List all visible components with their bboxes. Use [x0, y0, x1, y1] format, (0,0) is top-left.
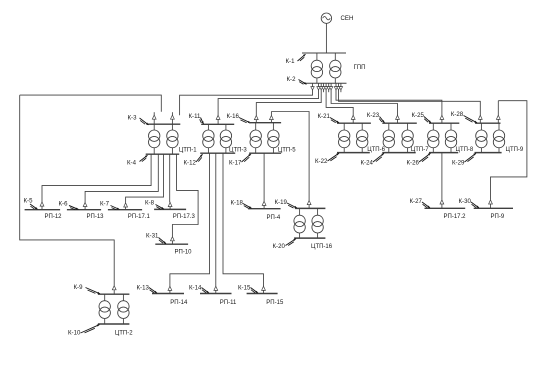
- GPP HV bus: [302, 52, 346, 54]
- svg-text:РП-9: РП-9: [491, 214, 505, 220]
- switch K-18 label: [231, 200, 252, 209]
- svg-text:ЦТП-8: ЦТП-8: [456, 147, 474, 153]
- label GPP: [354, 64, 366, 71]
- wire CTP-3 to RP-15: [223, 153, 265, 293]
- transformer T2 CTP-3: [220, 124, 231, 153]
- switch K-19 label: [275, 199, 298, 208]
- svg-text:РП-11: РП-11: [220, 300, 237, 306]
- switch K-25 label: [412, 112, 432, 123]
- wire CTP-8 to RP-17.2: [440, 153, 444, 209]
- switch K-15 label: [238, 284, 258, 293]
- GPP feeder stub 8: [334, 83, 337, 90]
- CTP-1 LV bus: [146, 153, 180, 155]
- label CEN: [341, 15, 354, 22]
- svg-text:К-6: К-6: [59, 201, 69, 208]
- transformer T1 CTP-2: [99, 294, 110, 324]
- svg-text:К-14: К-14: [189, 284, 202, 291]
- switch K-1 label: [286, 54, 306, 65]
- CTP-7 feeder triangle: [396, 115, 400, 123]
- GPP feeder stub 2: [317, 83, 320, 90]
- svg-text:РП-4: РП-4: [267, 215, 281, 221]
- svg-text:К-20: К-20: [273, 243, 286, 250]
- svg-text:К-3: К-3: [128, 115, 138, 122]
- switch K-21 label: [318, 113, 340, 123]
- svg-text:РП-17.3: РП-17.3: [173, 214, 196, 220]
- label CTP-2: [115, 330, 133, 336]
- CTP-3 feeder triangle: [216, 115, 220, 124]
- switch K-10 label: [68, 325, 100, 337]
- transformer T2 CTP-8: [445, 123, 456, 152]
- label RP-4: [267, 215, 281, 221]
- svg-text:К-10: К-10: [68, 329, 81, 336]
- svg-text:К-27: К-27: [410, 198, 423, 205]
- svg-text:К-31: К-31: [146, 232, 159, 239]
- CTP-5 left feeder triangle: [254, 115, 258, 122]
- power source (grid) symbol: [321, 13, 331, 23]
- transformer T1 GPP: [311, 53, 322, 83]
- RP-9 bus: [474, 207, 513, 209]
- transformer T1 CTP-8: [428, 123, 439, 152]
- svg-text:К-7: К-7: [100, 201, 110, 208]
- svg-text:ЦТП-7: ЦТП-7: [411, 147, 429, 153]
- wire CTP-1 to RP-17.3: [168, 154, 172, 209]
- RP-4 bus: [248, 208, 281, 210]
- CTP-1 HV bus: [147, 123, 180, 125]
- switch K-26 label: [407, 153, 431, 166]
- label RP-12: [45, 214, 63, 220]
- switch K-12 label: [184, 154, 203, 166]
- CTP-5 right feeder from bridge: [270, 112, 274, 123]
- switch K-4 label: [127, 155, 148, 166]
- label CTP-9: [506, 147, 524, 153]
- svg-text:К-16: К-16: [227, 113, 240, 120]
- svg-text:К-29: К-29: [452, 160, 465, 167]
- switch K-11 label: [189, 113, 204, 124]
- wire feeder 7 to CTP-7: [331, 90, 397, 115]
- svg-text:К-12: К-12: [184, 160, 197, 167]
- transformer T1 CTP-1: [149, 124, 160, 154]
- RP-12 bus: [25, 209, 61, 211]
- wire CTP-1 to RP-17.1: [124, 154, 164, 210]
- svg-text:РП-13: РП-13: [87, 214, 105, 220]
- CTP-2 feeder triangle: [112, 286, 116, 295]
- svg-text:ЦТП-2: ЦТП-2: [115, 330, 133, 336]
- wire CTP-1 to RP-10: [171, 154, 199, 244]
- CTP-8 LV bus: [429, 152, 458, 154]
- transformer T2 CTP-6: [357, 123, 368, 152]
- svg-text:К-8: К-8: [145, 200, 155, 207]
- RP-9 feeder triangle: [489, 200, 493, 209]
- wire feeder 3 to CTP-5 left: [256, 90, 321, 115]
- label RP-14: [170, 300, 188, 306]
- CTP-16 HV bus: [295, 207, 326, 209]
- label RP-17.1: [128, 214, 151, 220]
- switch K-27 label: [410, 198, 431, 208]
- switch K-9 label: [74, 284, 101, 294]
- transformer T1 CTP-9: [476, 123, 487, 152]
- svg-text:РП-17.2: РП-17.2: [444, 214, 467, 220]
- switch K-22 label: [315, 153, 339, 165]
- CTP-7 LV bus: [382, 152, 415, 154]
- wire left trunk to CTP-1 left drop: [20, 95, 162, 112]
- switch K-6 label: [59, 201, 79, 210]
- GPP feeder stub 10: [339, 83, 342, 90]
- GPP feeder stub 7: [329, 83, 332, 90]
- RP-17.3 bus: [154, 208, 186, 210]
- wire CTP-3 to RP-14: [168, 153, 210, 293]
- transformer T1 CTP-7: [383, 123, 394, 152]
- RP-15 bus: [247, 293, 278, 295]
- wire CTP-3 to RP-11: [214, 153, 218, 293]
- switch K-29 label: [452, 153, 476, 166]
- svg-text:К-19: К-19: [275, 199, 288, 206]
- label RP-17.2: [444, 214, 467, 220]
- CTP-5 LV bus: [249, 152, 281, 154]
- label RP-15: [266, 300, 284, 306]
- label CTP-1: [179, 148, 197, 154]
- switch K-17 label: [229, 154, 251, 167]
- svg-text:К-23: К-23: [367, 112, 380, 119]
- GPP feeder stub 9: [337, 83, 340, 90]
- switch K-14 label: [189, 284, 209, 293]
- CTP-16 LV bus: [294, 237, 325, 239]
- svg-text:СЕН: СЕН: [341, 15, 354, 22]
- GPP feeder stub 3: [320, 83, 323, 90]
- transformer T2 CTP-5: [268, 123, 279, 154]
- CTP-5 HV bus: [249, 122, 281, 124]
- svg-text:ЦТП-9: ЦТП-9: [506, 147, 524, 153]
- wire feeder 8 to CTP-8: [336, 90, 442, 115]
- CTP-16 feeder triangle: [307, 200, 311, 208]
- label RP-11: [220, 300, 237, 306]
- GPP feeder stub 5: [324, 83, 327, 90]
- label RP-10: [175, 250, 193, 256]
- CTP-9 HV bus: [475, 122, 500, 124]
- switch K-2 label: [287, 76, 307, 84]
- label CTP-7: [411, 147, 429, 153]
- CTP-9 LV bus: [475, 152, 502, 154]
- CTP-1 left feeder with disconnect triangle: [152, 112, 156, 124]
- svg-text:РП-17.1: РП-17.1: [128, 214, 151, 220]
- wire left rail to CTP-2: [20, 95, 115, 286]
- svg-text:РП-15: РП-15: [266, 300, 284, 306]
- svg-text:К-13: К-13: [137, 284, 150, 291]
- svg-text:ЦТП-1: ЦТП-1: [179, 148, 197, 154]
- svg-text:К-11: К-11: [189, 113, 202, 120]
- switch K-16 label: [227, 113, 251, 123]
- CTP-1 right feeder with disconnect triangle: [171, 112, 175, 124]
- CTP-3 LV bus: [200, 152, 235, 154]
- svg-text:К-28: К-28: [451, 111, 464, 118]
- svg-text:ЦТП-16: ЦТП-16: [311, 244, 333, 250]
- svg-text:К-24: К-24: [361, 160, 374, 167]
- RP-10 bus: [155, 243, 188, 245]
- RP-13 bus: [67, 209, 101, 211]
- CTP-3 HV bus: [201, 123, 234, 125]
- GPP feeder stub 6: [327, 83, 330, 90]
- CTP-6 feeder triangle: [351, 115, 355, 123]
- switch K-20 label: [273, 239, 297, 251]
- CTP-8 feeder triangle: [440, 115, 444, 123]
- switch K-28 label: [451, 111, 477, 123]
- wire CTP-5 to RP-4: [262, 153, 266, 209]
- CTP-6 LV bus: [337, 152, 370, 154]
- transformer T2 CTP-1: [167, 124, 178, 154]
- switch K-7 label: [100, 201, 120, 210]
- wire bridge CTP-5 to CTP-16: [271, 112, 309, 201]
- CTP-9 right feeder from bridge: [496, 101, 500, 124]
- switch K-13 label: [137, 284, 158, 293]
- svg-text:ГПП: ГПП: [354, 64, 366, 71]
- transformer T1 CTP-6: [339, 123, 350, 152]
- switch K-5 label: [24, 198, 38, 210]
- svg-text:К-25: К-25: [412, 112, 425, 119]
- svg-text:К-4: К-4: [127, 160, 137, 167]
- label CTP-16: [311, 244, 333, 250]
- svg-text:К-30: К-30: [459, 198, 472, 205]
- wire feeder 9 to CTP-9 left: [339, 90, 481, 115]
- transformer T2 CTP-2: [118, 294, 129, 324]
- svg-text:РП-10: РП-10: [175, 250, 193, 256]
- svg-text:К-18: К-18: [231, 200, 244, 207]
- transformer T2 CTP-16: [312, 208, 323, 238]
- wire feeder 5 to CTP-6: [326, 90, 353, 115]
- label RP-9: [491, 214, 505, 220]
- CTP-8 HV bus: [429, 122, 459, 124]
- transformer T2 CTP-7: [402, 123, 413, 152]
- svg-text:РП-12: РП-12: [45, 214, 63, 220]
- transformer T2 CTP-9: [493, 123, 504, 152]
- wire feeder 10 tail: [340, 90, 342, 92]
- switch K-8 label: [145, 200, 164, 210]
- switch K-23 label: [367, 112, 385, 123]
- switch K-31 label: [146, 232, 166, 243]
- label CTP-8: [456, 147, 474, 153]
- svg-text:К-15: К-15: [238, 284, 251, 291]
- RP-17.1 bus: [108, 209, 142, 211]
- wire CTP-1 to RP-12: [40, 154, 151, 210]
- wire feeder 4 tail: [323, 90, 325, 92]
- CTP-6 HV bus: [337, 122, 371, 124]
- RP-11 bus: [200, 293, 232, 295]
- transformer T1 CTP-5: [250, 123, 261, 154]
- transformer T2 GPP: [330, 53, 341, 83]
- wire source to GPP HV bus: [325, 23, 327, 53]
- svg-text:РП-14: РП-14: [170, 300, 188, 306]
- transformer T1 CTP-3: [203, 124, 214, 153]
- svg-text:К-2: К-2: [287, 76, 297, 83]
- wire CTP-1 to RP-13: [83, 154, 158, 210]
- svg-text:К-1: К-1: [286, 58, 296, 65]
- wire feeder 6 tail: [328, 90, 330, 92]
- GPP feeder stub 4: [322, 83, 325, 90]
- wire feeder 1 to CTP-1 right drop: [180, 90, 313, 115]
- svg-text:К-21: К-21: [318, 113, 331, 120]
- label RP-13: [87, 214, 105, 220]
- CTP-2 LV bus: [98, 323, 129, 325]
- svg-text:К-26: К-26: [407, 160, 420, 167]
- RP-17.2 bus: [425, 207, 466, 209]
- switch K-24 label: [361, 153, 385, 166]
- wire bridge CTP-9 to RP-9: [491, 101, 527, 200]
- GPP feeder stub 1: [311, 83, 314, 90]
- label CTP-5: [278, 148, 296, 154]
- RP-14 bus: [152, 293, 184, 295]
- GPP LV bus: [304, 82, 347, 84]
- CTP-7 HV bus: [382, 122, 417, 124]
- svg-text:К-5: К-5: [24, 198, 34, 205]
- svg-text:К-22: К-22: [315, 158, 328, 165]
- CTP-9 left feeder triangle: [478, 115, 482, 123]
- svg-text:К-9: К-9: [74, 284, 84, 291]
- label RP-17.3: [173, 214, 196, 220]
- transformer T1 CTP-16: [294, 208, 305, 238]
- switch K-3 label: [128, 115, 149, 125]
- svg-text:К-17: К-17: [229, 160, 242, 167]
- switch K-30 label: [459, 198, 480, 208]
- wire feeder 2 to CTP-3: [218, 90, 318, 115]
- label CTP-3: [229, 148, 247, 154]
- CTP-2 HV bus: [98, 293, 129, 295]
- label CTP-6: [367, 147, 385, 153]
